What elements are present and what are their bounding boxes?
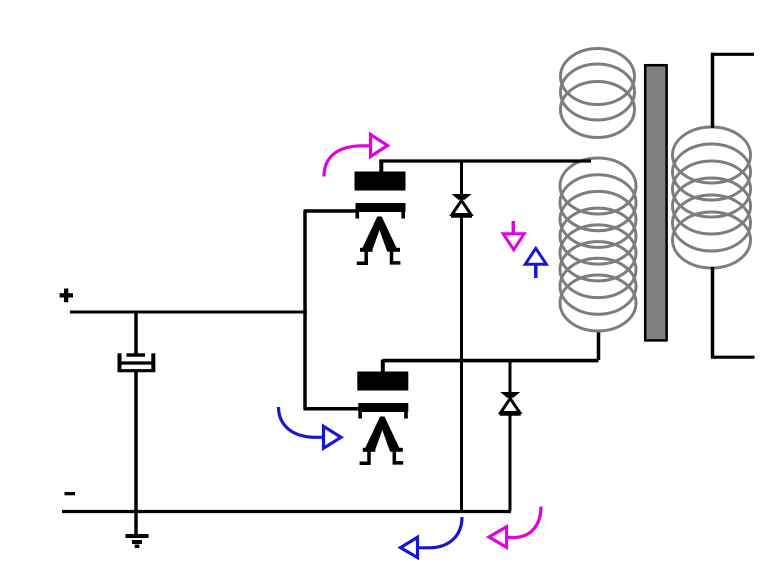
- diode D1 upper lead: [460, 161, 463, 195]
- wire diode D1 lower lead to bottom rail: [460, 218, 463, 512]
- transistor Q1 (upper MOSFET): [355, 172, 406, 264]
- wire middle rail to transformer bottom: [383, 359, 599, 363]
- transformer T1 secondary winding (right coil): [673, 127, 751, 268]
- arrow blue up (primary current up): [525, 248, 546, 278]
- wire Q2 gate lead: [304, 407, 360, 411]
- node + (positive terminal label): [60, 289, 73, 303]
- wire Q2 drain stub: [381, 360, 385, 373]
- wire Q1 gate lead: [304, 209, 358, 213]
- arrow magenta down (primary current down): [503, 221, 524, 250]
- wire transformer primary bottom lead: [597, 333, 601, 361]
- wire capacitor bottom lead: [134, 372, 138, 535]
- node - (negative terminal label): [65, 492, 76, 495]
- wire secondary bottom: [711, 267, 715, 358]
- wire diode D2 lower lead to bottom rail: [509, 416, 512, 512]
- diode D1: [451, 194, 472, 216]
- transformer T1 core: [645, 65, 666, 340]
- arrow magenta bottom (return current): [489, 507, 541, 548]
- wire positive rail: [70, 311, 307, 314]
- arrow magenta top (high-side conduction direction): [324, 135, 388, 177]
- wire Q1 drain stub: [379, 160, 383, 173]
- diode D2: [500, 392, 521, 414]
- wire secondary top stub to right: [711, 53, 754, 56]
- capacitor C1: [118, 353, 156, 371]
- wire diode D2 upper lead: [509, 362, 512, 393]
- wire secondary bottom stub to right: [711, 356, 755, 359]
- transistor Q2 (lower MOSFET): [357, 372, 408, 464]
- wire top rail to transformer: [379, 159, 591, 162]
- ground: [126, 536, 149, 546]
- transformer T1 primary winding (left coil): [560, 158, 636, 331]
- arrow blue middle (low-side conduction direction): [279, 407, 342, 448]
- wire secondary top: [711, 53, 715, 128]
- wire gate bus vertical: [303, 211, 307, 409]
- transformer T1 auxiliary winding (top left coil): [561, 49, 635, 138]
- arrow blue bottom (return current): [401, 517, 463, 558]
- wire negative rail (bottom): [62, 510, 511, 513]
- wire capacitor top lead: [134, 311, 138, 355]
